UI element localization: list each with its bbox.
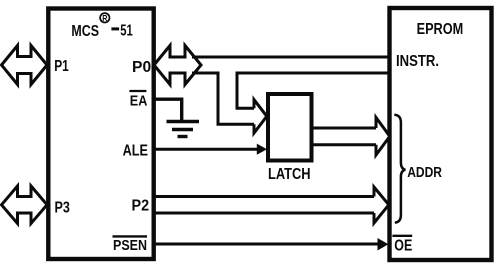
pin label OE (active low, overline) [392, 236, 412, 255]
wire hollow bus branch to latch, outer edge [218, 72, 255, 125]
ground symbol [167, 122, 200, 137]
block U2 EPROM [390, 8, 492, 260]
block U3 LATCH [268, 94, 312, 161]
svg-text:ADDR: ADDR [407, 164, 442, 181]
wire latch output address bus top line [314, 127, 378, 130]
wire P2 address bus top line [154, 195, 376, 198]
svg-text:LATCH: LATCH [268, 166, 311, 183]
wire P0 instruction bus bottom line, left segment [192, 72, 219, 75]
wire latch output address bus bottom line [314, 143, 378, 146]
svg-text:EA: EA [130, 93, 148, 110]
port P0 bidirectional bus arrow [154, 46, 201, 85]
solid arrowhead PSEN into EPROM [378, 238, 389, 251]
svg-text:51: 51 [120, 23, 133, 40]
hollow bus arrowhead P2 to EPROM ADDR [374, 187, 389, 223]
hollow bus arrowhead into latch [254, 100, 267, 133]
wire ALE to latch [154, 148, 258, 151]
svg-text:P0: P0 [132, 59, 151, 76]
svg-text:INSTR.: INSTR. [396, 53, 439, 70]
solid arrowhead ALE into latch [257, 144, 267, 155]
wire P2 address bus bottom line [154, 212, 376, 215]
wire EA to ground [154, 99, 182, 120]
wire hollow bus branch to latch, inner edge [237, 72, 255, 109]
svg-text:P1: P1 [54, 58, 69, 75]
svg-text:P3: P3 [55, 200, 70, 217]
port P3 bidirectional bus arrow [2, 186, 48, 224]
svg-text:ALE: ALE [123, 143, 149, 160]
svg-text:P2: P2 [132, 198, 150, 215]
svg-text:OE: OE [394, 238, 412, 255]
svg-text:R: R [102, 13, 107, 23]
brace grouping ADDR inputs [394, 115, 405, 223]
hollow bus arrowhead latch to EPROM ADDR [376, 118, 390, 156]
svg-text:MCS: MCS [71, 23, 99, 40]
pin label PSEN (active low, overline) [113, 236, 148, 254]
svg-text:EPROM: EPROM [417, 21, 464, 38]
port P1 bidirectional bus arrow [2, 46, 48, 85]
svg-text:PSEN: PSEN [113, 237, 147, 254]
block U1 MCS-51 microcontroller [48, 9, 153, 260]
wire P0 instruction bus top line to EPROM [192, 56, 391, 59]
pin label EA (active low, overline) [129, 91, 147, 110]
wire PSEN to EPROM OE [154, 243, 379, 246]
wire P0 instruction bus bottom line, right segment to EPROM [236, 72, 391, 75]
label MCS (R) -51 title [71, 13, 132, 40]
